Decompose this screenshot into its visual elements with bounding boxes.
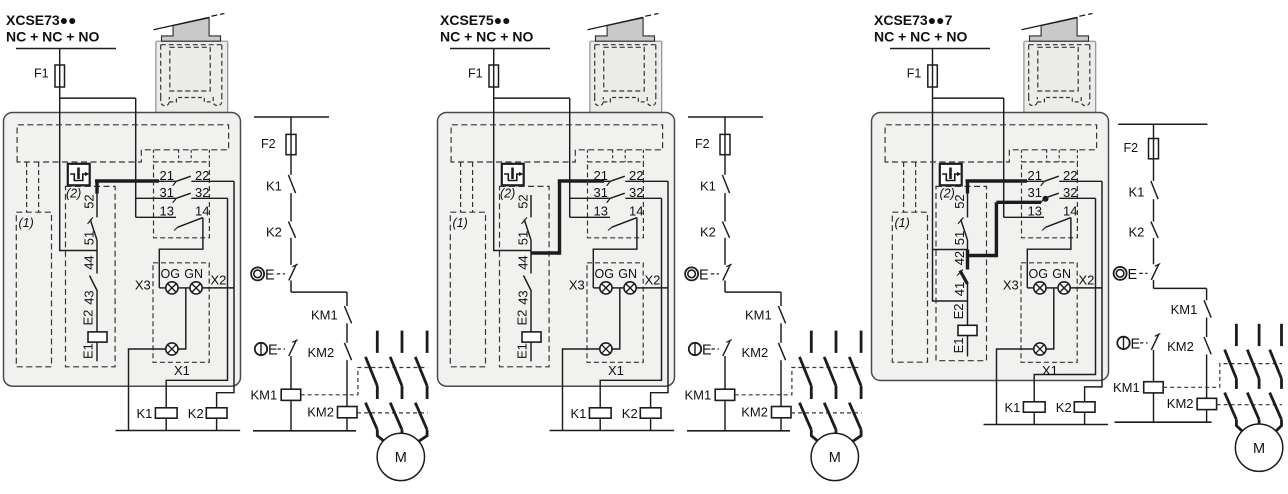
fuse F1	[34, 65, 65, 87]
lamp X1	[600, 343, 624, 378]
svg-text:31: 31	[594, 185, 608, 200]
contact 13-14	[1004, 203, 1078, 230]
KM1 mechanical link dashed	[1163, 364, 1282, 388]
wire 32 to relay K1	[166, 198, 227, 407]
contact K1	[700, 175, 730, 222]
svg-text:(1): (1)	[453, 216, 468, 230]
svg-text:22: 22	[195, 168, 209, 183]
power contacts phase L1	[366, 331, 378, 430]
svg-text:K1: K1	[1005, 400, 1021, 415]
internal mechanism dashed band	[885, 125, 1097, 162]
svg-text:KM2: KM2	[1167, 396, 1194, 411]
svg-text:KM1: KM1	[685, 388, 712, 403]
svg-text:KM1: KM1	[251, 388, 278, 403]
terminal X3	[135, 277, 151, 292]
svg-text:OG: OG	[595, 267, 614, 281]
solenoid coil E1-E2	[81, 310, 108, 362]
svg-text:K1: K1	[137, 406, 153, 421]
contact column dashed box	[66, 186, 116, 366]
dashed link to block (1)	[904, 162, 916, 212]
svg-text:KM1: KM1	[311, 308, 338, 323]
contact KM2	[742, 343, 786, 407]
power contacts phase L3	[1270, 324, 1282, 420]
control rail	[254, 116, 329, 118]
svg-text:13: 13	[160, 203, 174, 218]
svg-text:X3: X3	[135, 277, 151, 292]
block (1)	[892, 212, 927, 362]
svg-text:X3: X3	[1003, 277, 1019, 292]
svg-text:14: 14	[195, 203, 209, 218]
wire 22 to relay K2	[1085, 181, 1102, 401]
internal mechanism dashed band	[17, 125, 229, 162]
lamp block dashed box	[153, 263, 209, 363]
svg-text:31: 31	[1028, 185, 1042, 200]
svg-text:44: 44	[82, 255, 97, 269]
power contacts phase L2	[390, 331, 402, 430]
switch head housing	[156, 41, 228, 112]
svg-text:E: E	[268, 342, 278, 358]
lamp OG	[1027, 267, 1048, 294]
wire lamp X1 to bottom bar	[129, 349, 166, 431]
solenoid interlock icon (2)	[500, 164, 524, 201]
svg-text:44: 44	[516, 255, 531, 269]
svg-text:E1: E1	[951, 337, 966, 353]
title XCSE73oo	[6, 12, 99, 45]
svg-text:22: 22	[629, 168, 643, 183]
svg-text:52: 52	[952, 194, 967, 208]
dashed link to block (1)	[27, 162, 39, 212]
svg-text:NC + NC + NO: NC + NC + NO	[6, 29, 99, 45]
contact 21-22	[594, 168, 669, 186]
svg-text:F1: F1	[468, 67, 483, 81]
KM1 mechanical link dashed	[301, 368, 428, 395]
emergency stop E (pull-release)	[251, 264, 298, 292]
KM2 mechanical link dashed	[357, 412, 428, 414]
svg-text:XCSE73●●7: XCSE73●●7	[874, 12, 953, 28]
svg-text:XCSE75●●: XCSE75●●	[440, 12, 511, 28]
svg-text:21: 21	[1028, 168, 1042, 183]
wire branch to KM contacts	[291, 292, 347, 306]
wire to lamp X1	[612, 288, 620, 349]
contact KM1	[311, 306, 352, 343]
svg-text:41: 41	[952, 282, 967, 296]
svg-text:GN: GN	[184, 267, 203, 281]
dashed link to block (1)	[461, 162, 473, 212]
head plunger dashed outline	[595, 45, 656, 106]
hinged lever	[1022, 14, 1093, 30]
svg-text:KM1: KM1	[1171, 302, 1198, 317]
svg-text:E1: E1	[81, 343, 96, 359]
hinged lever	[588, 14, 659, 30]
switch body	[872, 113, 1109, 381]
contact KM1	[745, 306, 786, 343]
motor M	[811, 433, 858, 480]
svg-text:K1: K1	[266, 178, 282, 193]
contact KM2	[1167, 337, 1211, 398]
svg-text:(2): (2)	[66, 187, 81, 201]
svg-text:F2: F2	[695, 137, 710, 151]
contact KM2	[308, 343, 352, 407]
contact 21-22	[159, 168, 234, 186]
switch body	[438, 113, 675, 387]
head plunger dashed outline	[161, 45, 222, 106]
svg-text:14: 14	[1063, 203, 1077, 218]
emergency stop E (key release)	[1117, 334, 1160, 353]
contact K1	[266, 175, 296, 222]
contact 31-32	[570, 185, 662, 203]
contact 52-51	[516, 194, 532, 250]
terminal X3	[1003, 277, 1019, 292]
actuator key	[1030, 18, 1089, 41]
svg-text:K2: K2	[700, 225, 716, 240]
svg-text:E1: E1	[515, 343, 530, 359]
wire from rail through F1	[494, 49, 531, 251]
svg-text:K1: K1	[1129, 185, 1145, 200]
wire second feed	[1003, 98, 1005, 217]
supply rail	[450, 48, 550, 50]
svg-text:F1: F1	[34, 67, 49, 81]
solenoid interlock icon (2)	[940, 164, 962, 201]
svg-text:31: 31	[160, 185, 174, 200]
wire to lamp X1	[178, 288, 186, 349]
fuse F2	[695, 134, 730, 154]
svg-text:KM2: KM2	[742, 345, 769, 360]
contact 52-51	[82, 194, 98, 251]
wires to motor	[377, 430, 427, 446]
contact 44-43	[82, 251, 98, 332]
block (1)	[16, 212, 51, 367]
svg-text:K1: K1	[571, 406, 587, 421]
relay coil K2	[188, 406, 227, 431]
svg-text:52: 52	[516, 194, 531, 208]
control bottom bar	[253, 430, 356, 432]
wire F1 to solenoid junction	[933, 249, 968, 251]
svg-text:(1): (1)	[19, 216, 34, 230]
svg-text:GN: GN	[1052, 267, 1071, 281]
wire control feed	[1153, 124, 1155, 181]
svg-text:13: 13	[1028, 203, 1042, 218]
solenoid coil E1-E2	[515, 310, 542, 362]
wire branch to KM contacts	[725, 292, 781, 306]
svg-text:43: 43	[516, 290, 531, 304]
wire from rail through F1	[933, 49, 968, 302]
switch head housing	[1024, 41, 1096, 112]
svg-text:F2: F2	[261, 137, 276, 151]
mechanical link (bold) junction to contact 21	[532, 181, 605, 255]
svg-text:(1): (1)	[895, 216, 910, 230]
wire lamp X1 to bottom bar	[997, 349, 1034, 425]
wire 22 to relay K2	[217, 181, 234, 407]
terminal X3	[569, 277, 585, 292]
contactor coil KM2	[1167, 396, 1217, 422]
wire 14 to lamp terminal X3	[159, 218, 203, 288]
relay coil K1	[571, 406, 612, 431]
svg-text:X1: X1	[608, 363, 624, 378]
svg-text:NC + NC + NO: NC + NC + NO	[874, 29, 967, 45]
mechanical link (bold) icon to contact 21	[966, 180, 1028, 194]
svg-text:22: 22	[1063, 168, 1077, 183]
svg-text:X1: X1	[174, 363, 190, 378]
svg-text:52: 52	[82, 194, 97, 208]
lamp OG	[593, 267, 614, 294]
svg-text:(2): (2)	[500, 187, 515, 201]
contact 42-41 (bold, solenoid monitored)	[952, 250, 968, 326]
svg-text:K1: K1	[700, 178, 716, 193]
solenoid coil E1-E2	[951, 303, 977, 356]
wire second feed	[569, 98, 571, 217]
switch body	[4, 113, 241, 387]
hinged lever	[154, 14, 225, 30]
emergency stop E (key release)	[689, 340, 732, 359]
contact 31-32	[136, 185, 228, 203]
wire second feed	[135, 98, 137, 217]
svg-text:F2: F2	[1124, 141, 1139, 155]
emergency stop E (pull-release)	[685, 264, 732, 292]
wire branch to KM contacts	[1154, 288, 1207, 300]
svg-text:NC + NC + NO: NC + NC + NO	[440, 29, 533, 45]
bottom bar	[116, 430, 241, 432]
wire control feed	[724, 117, 726, 175]
svg-text:51: 51	[952, 231, 967, 245]
svg-text:KM2: KM2	[741, 404, 768, 419]
control rail	[688, 116, 763, 118]
contact K1	[1129, 181, 1159, 222]
wires to motor	[811, 430, 861, 446]
relay coil K2	[1056, 400, 1095, 425]
wire 14 to lamp terminal X3	[1027, 218, 1071, 288]
svg-text:KM1: KM1	[745, 308, 772, 323]
svg-text:32: 32	[629, 185, 643, 200]
actuator key	[596, 18, 655, 41]
title XCSE73oo7	[874, 12, 967, 45]
svg-text:42: 42	[952, 251, 967, 265]
svg-text:KM1: KM1	[1113, 380, 1140, 395]
svg-text:13: 13	[594, 203, 608, 218]
svg-text:X3: X3	[569, 277, 585, 292]
actuator key	[162, 18, 221, 41]
svg-text:K2: K2	[1056, 400, 1072, 415]
fuse F2	[261, 134, 296, 154]
contact K2	[1129, 222, 1159, 265]
svg-text:M: M	[829, 450, 841, 466]
switch head housing	[590, 41, 662, 112]
lamp X1	[1034, 343, 1058, 378]
svg-text:E2: E2	[81, 310, 96, 326]
contact 13-14	[570, 203, 644, 230]
svg-text:X2: X2	[1079, 272, 1095, 287]
svg-text:51: 51	[82, 231, 97, 245]
svg-text:51: 51	[516, 231, 531, 245]
svg-text:E: E	[702, 342, 712, 358]
bottom bar	[984, 424, 1109, 426]
power contacts phase L1	[800, 331, 812, 430]
terminal X2	[1079, 272, 1095, 287]
motor M	[1235, 424, 1282, 471]
internal mechanism dashed band	[451, 125, 662, 162]
contactor coil KM1	[1113, 350, 1163, 422]
svg-text:E2: E2	[951, 303, 966, 319]
contact K2	[700, 222, 730, 265]
bottom bar	[550, 430, 675, 432]
svg-text:X2: X2	[211, 272, 227, 287]
svg-text:OG: OG	[161, 267, 180, 281]
wire lamp X1 to bottom bar	[563, 349, 600, 431]
contact K2	[266, 222, 296, 265]
emergency stop E (key release)	[255, 340, 298, 359]
svg-text:K2: K2	[266, 225, 282, 240]
contactor coil KM1	[685, 356, 735, 431]
svg-text:OG: OG	[1029, 267, 1048, 281]
wire control feed	[290, 117, 292, 175]
contact KM1	[1171, 300, 1212, 337]
block (1)	[450, 212, 485, 367]
control bottom bar	[1115, 421, 1212, 423]
KM1 mechanical link dashed	[735, 368, 862, 395]
svg-text:E: E	[265, 267, 275, 283]
wire jumper to second feed	[933, 97, 1004, 99]
svg-text:43: 43	[82, 290, 97, 304]
wire to lamp X1	[1046, 288, 1054, 349]
mechanical link (bold) icon to contact 21	[95, 180, 159, 194]
svg-text:GN: GN	[618, 267, 637, 281]
svg-text:KM2: KM2	[307, 404, 334, 419]
motor M	[377, 433, 424, 480]
solenoid interlock icon (2)	[66, 164, 90, 201]
head plunger dashed outline	[1029, 45, 1090, 106]
wire 32 to relay K1	[600, 198, 661, 407]
contactor coil KM1	[251, 356, 301, 431]
control bottom bar	[687, 430, 790, 432]
contactor coil KM2	[307, 404, 357, 431]
wire jumper to second feed	[494, 97, 570, 99]
svg-text:XCSE73●●: XCSE73●●	[6, 12, 77, 28]
svg-text:32: 32	[1063, 185, 1077, 200]
relay coil K2	[622, 406, 661, 431]
wire 22 to relay K2	[651, 181, 668, 407]
emergency stop E (pull-release)	[1114, 264, 1161, 289]
KM2 mechanical link dashed	[1217, 404, 1282, 406]
svg-text:E: E	[1131, 336, 1141, 352]
lamp GN	[178, 267, 234, 294]
power contacts phase L3	[849, 331, 861, 430]
svg-text:E: E	[1128, 267, 1138, 283]
wires to motor	[1236, 420, 1281, 437]
svg-text:32: 32	[195, 185, 209, 200]
power contacts phase L2	[1247, 324, 1259, 420]
title XCSE75oo	[440, 12, 533, 45]
power contacts phase L1	[1225, 324, 1237, 420]
lamp X1	[166, 343, 190, 378]
svg-text:M: M	[395, 450, 407, 466]
power contacts phase L2	[824, 331, 836, 430]
terminal X2	[211, 272, 227, 287]
fuse F2	[1124, 139, 1159, 159]
svg-text:E2: E2	[515, 310, 530, 326]
svg-text:K2: K2	[1129, 225, 1145, 240]
svg-text:M: M	[1253, 441, 1265, 457]
svg-text:21: 21	[594, 168, 608, 183]
svg-text:F1: F1	[907, 67, 922, 81]
svg-text:KM2: KM2	[1167, 339, 1194, 354]
control rail	[1118, 123, 1207, 125]
contactor coil KM2	[741, 404, 791, 431]
fuse F1	[468, 65, 499, 87]
svg-text:K2: K2	[188, 406, 204, 421]
terminal X2	[645, 272, 661, 287]
svg-text:E: E	[699, 267, 709, 283]
head contact block dashed box	[154, 162, 210, 238]
relay coil K1	[1005, 400, 1046, 425]
wire 14 to lamp terminal X3	[593, 218, 637, 288]
svg-text:X2: X2	[645, 272, 661, 287]
relay coil K1	[137, 406, 178, 431]
contact 13-14	[136, 203, 210, 230]
contact column dashed box	[500, 186, 550, 366]
wire from rail through F1	[60, 49, 97, 251]
head contact block dashed box	[588, 162, 644, 238]
power contacts phase L3	[415, 331, 427, 430]
lamp block dashed box	[1021, 263, 1077, 363]
wire 32 to relay K1	[1034, 198, 1095, 401]
KM2 mechanical link dashed	[791, 412, 862, 414]
mechanical link (bold) to contact 31	[968, 196, 1049, 257]
svg-text:X1: X1	[1042, 363, 1058, 378]
svg-text:KM2: KM2	[308, 345, 335, 360]
svg-text:14: 14	[629, 203, 643, 218]
supply rail	[16, 48, 116, 50]
lamp GN	[612, 267, 668, 294]
lamp block dashed box	[587, 263, 643, 363]
lamp GN	[1046, 267, 1102, 294]
lamp OG	[159, 267, 180, 294]
supply rail	[890, 48, 990, 50]
wire jumper to second feed	[60, 97, 136, 99]
svg-text:K2: K2	[622, 406, 638, 421]
contact column dashed box	[936, 186, 987, 360]
svg-text:21: 21	[160, 168, 174, 183]
fuse F1	[907, 65, 938, 87]
contact 21-22	[1027, 168, 1102, 186]
contact 52-51	[952, 194, 968, 251]
head contact block dashed box	[1022, 162, 1078, 238]
contact 31-32	[1028, 185, 1096, 203]
contact 44-43	[516, 251, 532, 332]
